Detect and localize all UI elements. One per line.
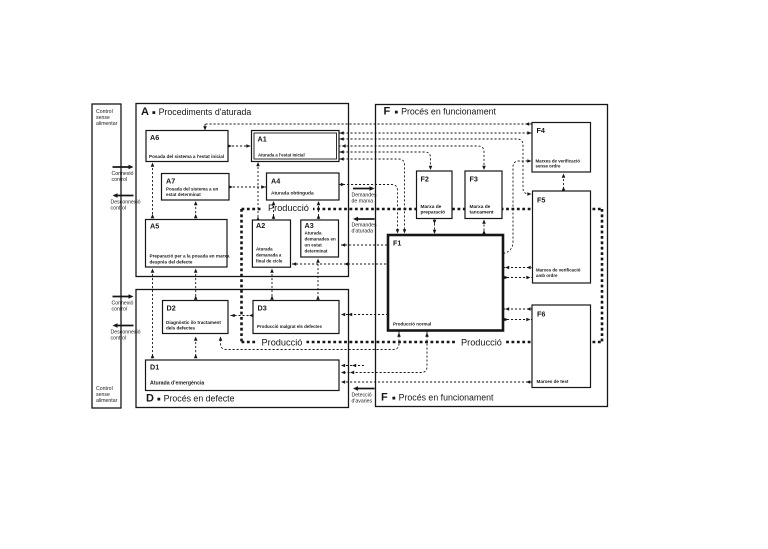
svg-text:Marxes de verificació: Marxes de verificació: [536, 268, 581, 273]
svg-text:A1: A1: [258, 135, 267, 144]
svg-text:de marxa: de marxa: [352, 199, 374, 205]
svg-text:Producció: Producció: [262, 338, 303, 348]
svg-text:amb ordre: amb ordre: [536, 273, 558, 278]
svg-text:Procés en funcionament: Procés en funcionament: [401, 107, 496, 117]
svg-text:A5: A5: [150, 222, 159, 231]
svg-text:control: control: [112, 306, 128, 312]
svg-text:control: control: [111, 335, 127, 341]
svg-text:Procés en funcionament: Procés en funcionament: [399, 393, 494, 403]
svg-text:F1: F1: [393, 239, 401, 248]
svg-text:un estat: un estat: [305, 242, 323, 247]
svg-text:Producció: Producció: [461, 338, 502, 348]
svg-text:A2: A2: [256, 221, 265, 230]
svg-text:F2: F2: [421, 175, 429, 184]
svg-text:A: A: [141, 106, 149, 118]
svg-text:D3: D3: [258, 304, 267, 313]
svg-text:alimentar: alimentar: [96, 398, 118, 404]
svg-text:demanada a: demanada a: [256, 253, 282, 258]
svg-text:D1: D1: [150, 363, 159, 372]
svg-text:Producció normal: Producció normal: [393, 321, 431, 326]
svg-text:Aturada obtinguda: Aturada obtinguda: [271, 191, 314, 197]
svg-text:D2: D2: [167, 304, 176, 313]
svg-text:Procés en defecte: Procés en defecte: [164, 394, 235, 404]
svg-text:demanades en: demanades en: [305, 236, 337, 241]
svg-text:preparació: preparació: [421, 210, 446, 216]
svg-text:determinat: determinat: [305, 248, 329, 253]
svg-text:Marxa de: Marxa de: [470, 204, 491, 210]
svg-text:dels defectes: dels defectes: [166, 326, 196, 331]
svg-text:d'avaries: d'avaries: [352, 398, 373, 404]
svg-text:alimentar: alimentar: [96, 121, 118, 127]
svg-text:Aturada: Aturada: [256, 247, 273, 252]
svg-text:Aturada a l'estat inicial: Aturada a l'estat inicial: [258, 153, 305, 158]
svg-text:tancament: tancament: [470, 210, 494, 216]
svg-text:F: F: [381, 392, 388, 404]
svg-text:Marxa de: Marxa de: [421, 204, 442, 210]
svg-text:final de cicle: final de cicle: [256, 259, 283, 264]
svg-text:A6: A6: [150, 133, 159, 142]
svg-text:F4: F4: [537, 126, 545, 135]
svg-text:Posada del sistema a l'estat i: Posada del sistema a l'estat inicial: [149, 154, 224, 159]
svg-text:D: D: [146, 393, 154, 405]
svg-text:d'aturada: d'aturada: [352, 229, 374, 235]
svg-text:sense ordre: sense ordre: [536, 163, 561, 168]
svg-text:Posada del sistema a un: Posada del sistema a un: [166, 186, 219, 191]
svg-text:F5: F5: [537, 196, 545, 205]
svg-text:Preparació per a la posada en: Preparació per a la posada en marxa: [150, 254, 230, 259]
svg-text:Aturada d'emergència: Aturada d'emergència: [150, 381, 204, 387]
svg-text:A7: A7: [166, 177, 175, 186]
svg-text:control: control: [111, 205, 127, 211]
svg-text:Producció malgrat els defectes: Producció malgrat els defectes: [257, 324, 322, 329]
svg-text:Diagnòstic i/o tractament: Diagnòstic i/o tractament: [166, 320, 221, 325]
svg-text:Aturada: Aturada: [305, 230, 322, 235]
svg-text:control: control: [112, 177, 128, 183]
svg-text:F6: F6: [537, 310, 545, 319]
svg-text:A4: A4: [271, 177, 280, 186]
svg-text:Procediments d'aturada: Procediments d'aturada: [159, 107, 252, 117]
svg-text:estat determinat: estat determinat: [166, 192, 201, 197]
svg-text:Marxes de test: Marxes de test: [537, 379, 569, 384]
svg-text:A3: A3: [305, 221, 314, 230]
svg-text:F: F: [384, 106, 391, 118]
svg-text:després del defecte: després del defecte: [150, 259, 193, 264]
svg-text:F3: F3: [470, 175, 478, 184]
